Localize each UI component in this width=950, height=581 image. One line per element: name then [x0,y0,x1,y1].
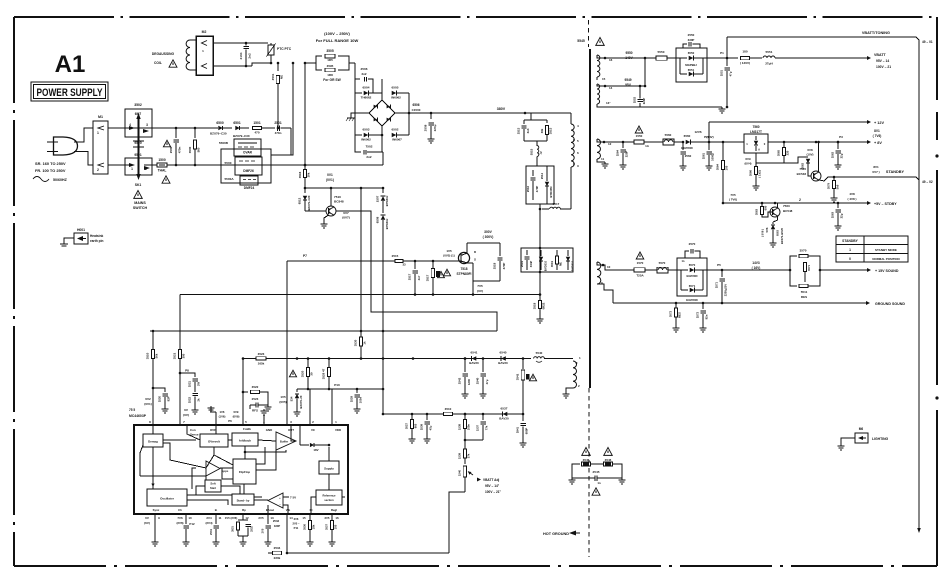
svg-text:+5V – STDBY: +5V – STDBY [874,202,897,206]
svg-text:1: 1 [131,167,133,171]
label 9550 [625,51,633,60]
svg-text:(1V6): (1V6) [219,415,226,419]
svg-text:3: 3 [146,123,148,127]
svg-text:0V: 0V [145,516,149,520]
inductor 5570 [657,261,677,273]
svg-text:BZX79–C20: BZX79–C20 [307,195,311,210]
svg-text:P8: P8 [185,369,189,373]
svg-text:3519: 3519 [550,260,554,267]
svg-text:9501: 9501 [134,153,142,157]
svg-text:1550: 1550 [636,134,643,138]
svg-text:For GR SW: For GR SW [323,78,341,82]
diode 6502 [392,128,409,142]
svg-text:S: S [474,258,476,262]
svg-text:3537: 3537 [325,524,329,530]
svg-text:2518: 2518 [493,262,497,269]
svg-text:foldback: foldback [239,439,251,443]
svg-text:13°: 13° [606,101,611,105]
svg-text:3513: 3513 [549,127,553,134]
capacitor 2562 P3 [831,135,844,169]
svg-text:2513: 2513 [517,127,521,134]
svg-text:18V: 18V [313,448,318,452]
svg-text:2V5: 2V5 [325,516,330,520]
svg-text:330P: 330P [688,38,695,42]
svg-text:IN6062: IN6062 [391,96,401,100]
svg-text:7565: 7565 [799,167,806,171]
svg-text:C1500: C1500 [412,108,421,112]
diode 6505 [391,86,409,100]
svg-text:Regl: Regl [331,508,337,512]
svg-text:33nP: 33nP [529,261,533,268]
inductor 5540 [523,351,573,362]
svg-text:POWER SUPPLY: POWER SUPPLY [37,87,103,99]
svg-text:( 1k2): ( 1k2) [758,170,762,177]
svg-text:RES: RES [801,295,807,299]
svg-text:49 – 02: 49 – 02 [922,180,933,184]
svg-text:SK1: SK1 [135,183,142,187]
svg-text:39: 39 [310,372,314,376]
capacitor 2541 [516,414,529,447]
svg-text:7510: 7510 [334,195,341,199]
mains plug [47,128,93,165]
label 7V5 0V [477,284,483,293]
diode 1507 [376,188,390,213]
svg-text:1200: 1200 [467,378,471,385]
wire +8V [768,129,882,145]
svg-text:opps: opps [222,469,229,473]
svg-text:P5: P5 [717,263,721,267]
svg-text:2508: 2508 [424,124,428,131]
wire drain rail [539,209,542,295]
svg-text:2104: 2104 [239,52,243,59]
capacitor 2550 [683,33,700,48]
svg-text:P11: P11 [294,526,299,530]
svg-text:12: 12 [245,516,249,520]
svg-text:( 7V6): ( 7V6) [729,198,737,202]
svg-text:100n: 100n [359,397,363,404]
svg-text:STPN80FI: STPN80FI [457,272,472,276]
svg-text:1V6: 1V6 [220,410,225,414]
svg-text:5540: 5540 [536,351,543,355]
svg-text:(6V): (6V) [144,521,150,525]
svg-text:39k: 39k [307,172,311,177]
svg-text:82P: 82P [167,396,171,401]
svg-text:2531: 2531 [209,529,213,535]
svg-text:Oscillator: Oscillator [160,497,175,501]
svg-text:18k: 18k [312,524,316,529]
svg-text:39k: 39k [540,128,544,133]
svg-text:2n2: 2n2 [362,72,367,76]
svg-text:47μ: 47μ [485,379,489,384]
capacitor 2542 [458,357,485,398]
svg-text:2V6: 2V6 [294,517,299,521]
IC block Supply [319,461,339,474]
svg-text:6560: 6560 [684,134,691,138]
svg-text:2519: 2519 [520,260,524,267]
svg-text:3541: 3541 [516,373,520,380]
wire rail y414 [383,413,524,416]
svg-text:(0V1): (0V1) [144,402,152,406]
resistor 180 [740,50,762,66]
svg-text:1537: 1537 [476,424,480,431]
svg-text:6501: 6501 [233,121,241,125]
potentiometer 1540 [458,466,474,492]
resistor 3517 [426,261,445,295]
svg-text:2562: 2562 [831,151,835,158]
wire PTC to bridge [354,63,356,93]
label 0V pin7 [183,408,189,417]
svg-text:A1: A1 [55,51,86,78]
capacitor 2545 [568,470,625,495]
svg-text:3529 47: 3529 47 [322,368,326,379]
label 0V1 [326,173,334,182]
varistor block 5500 [221,149,271,183]
svg-text:6563: 6563 [776,230,780,236]
svg-text:GND: GND [266,428,272,432]
svg-text:NORMAL POSITION: NORMAL POSITION [872,257,899,261]
svg-text:(0V9): (0V9) [233,415,240,419]
svg-text:P6: P6 [228,419,232,423]
diode 6537 [497,407,523,421]
wire standby drop [917,62,921,533]
wire rail drop x153 [152,331,154,349]
label P8 [185,369,189,373]
svg-text:SWITCH: SWITCH [133,206,148,210]
capacitor 2521 [180,373,201,392]
resistor 1501 [253,121,276,135]
capacitor 2500 [163,128,181,165]
svg-text:1V5: 1V5 [446,249,452,253]
svg-text:9500: 9500 [134,141,142,145]
label 14V3 [752,261,761,270]
svg-text:16: 16 [609,58,613,62]
svg-text:EAout: EAout [266,508,274,512]
wire P1 node [707,51,738,59]
svg-text:MGP9BJ: MGP9BJ [685,63,697,67]
svg-text:M1: M1 [98,115,103,119]
wire STANDBY [828,165,933,184]
svg-text:OVAR: OVAR [243,151,253,155]
svg-text:STANDBY: STANDBY [842,239,858,243]
resistor 3536 pin15 [302,514,315,546]
svg-text:COIL: COIL [154,61,162,65]
capacitor 2531 pin11 [205,514,221,546]
svg-text:OVervolt: OVervolt [208,440,220,444]
svg-text:(0V1): (0V1) [326,178,334,182]
svg-text:47μ: 47μ [429,425,433,430]
diode 6503 [355,128,382,142]
svg-text:2515: 2515 [392,254,399,258]
svg-text:earth pin: earth pin [90,239,104,243]
svg-text:NE: NE [280,75,284,79]
svg-text:6508: 6508 [376,216,380,223]
svg-text:STANDBY: STANDBY [886,170,905,174]
IC block FlipFlop [233,459,256,484]
IC block Overvolt [200,434,228,447]
svg-text:PTC PTC: PTC PTC [277,47,292,51]
wire VBATT TONING [727,31,933,62]
resistor 3566 [749,163,762,190]
fuse 1570 [613,252,657,278]
fuse 1500 [152,158,176,183]
svg-text:6551: 6551 [688,68,695,72]
svg-text:(0V5): (0V5) [279,400,286,404]
capacitor 2572 [696,303,709,332]
diode 6541 [383,351,497,366]
svg-text:(2V4): (2V4) [205,521,212,525]
label SK1 / MAINS SWITCH [133,183,148,210]
svg-text:10: 10 [188,516,192,520]
svg-text:95V – 14: 95V – 14 [876,59,889,63]
svg-text:100V – 21°: 100V – 21° [485,490,502,494]
svg-text:3527: 3527 [405,422,409,429]
diode 6508 [376,215,390,414]
svg-text:1: 1 [849,248,851,252]
svg-text:7518: 7518 [460,267,467,271]
transistor 7510 [305,188,350,228]
svg-text:3516: 3516 [298,171,302,178]
svg-text:220: 220 [786,150,790,155]
transformer secondary winding 12-11 [597,139,612,168]
svg-text:Rp: Rp [242,508,246,512]
svg-text:3531: 3531 [231,526,235,532]
IC pin numbers top [149,419,337,424]
label HOT GROUND [543,531,580,537]
hot-cold separator dashed top [588,20,590,47]
svg-text:5500B: 5500B [219,141,229,145]
svg-text:2W: 2W [197,382,201,386]
svg-text:7560: 7560 [752,125,759,129]
resistor 3516 [298,165,311,188]
transformer secondary winding 10-9 [597,262,613,303]
svg-text:P1: P1 [720,51,724,55]
capacitor 2561 P2 [702,135,715,170]
svg-text:OVP: OVP [210,428,216,432]
svg-text:7 5V: 7 5V [290,496,296,500]
svg-text:HOT GROUND: HOT GROUND [543,532,569,536]
svg-text:(2V6): (2V6) [176,521,183,525]
svg-text:5500: 5500 [225,161,232,165]
svg-text:(100V – 250V): (100V – 250V) [324,31,350,36]
svg-text:6512: 6512 [298,197,302,204]
svg-text:6500: 6500 [216,121,224,125]
svg-text:3n3: 3n3 [526,128,530,133]
svg-text:77k: 77k [485,425,489,430]
svg-text:2539: 2539 [420,423,424,430]
svg-text:220μ: 220μ [433,124,437,131]
svg-text:Reference: Reference [323,494,337,498]
svg-text:2V4: 2V4 [206,516,212,520]
svg-text:P7: P7 [303,254,307,258]
svg-text:Foldb: Foldb [243,427,251,431]
inductor 5560 [663,133,683,145]
svg-text:220P: 220P [625,151,629,158]
svg-text:MC44603P: MC44603P [129,414,147,418]
IC block Stand-by [232,494,254,505]
svg-text:2563: 2563 [831,211,835,218]
svg-text:470P: 470P [535,186,539,193]
svg-text:680: 680 [764,205,768,210]
capacitor 2540 [476,359,490,398]
svg-text:2514: 2514 [540,172,544,179]
varistor block 5500A [224,176,258,190]
label MC44603P [129,408,147,418]
svg-text:2: 2 [799,198,801,202]
svg-text:3502: 3502 [134,103,142,107]
transformer core line [589,49,591,388]
svg-text:BYD33J: BYD33J [544,260,548,271]
svg-text:SR. 160 TO 250V: SR. 160 TO 250V [35,161,66,166]
svg-text:BZX79–C30: BZX79–C30 [210,132,227,136]
inductor 5550 [656,50,676,60]
svg-text:2540: 2540 [476,377,480,384]
rectifier box 6550/6551 [676,48,707,82]
svg-text:6571: 6571 [689,284,696,288]
svg-text:IN6062: IN6062 [361,138,371,142]
svg-text:1000μ: 1000μ [711,153,715,161]
svg-text:11: 11 [601,157,605,161]
wire gate rail P7 [287,254,455,262]
svg-text:1500: 1500 [158,158,166,162]
svg-text:7502: 7502 [366,145,373,149]
svg-text:3520: 3520 [301,370,305,377]
wire bridge bottom [381,126,384,152]
wire LM317 adj [755,153,757,158]
diode 6562 [784,148,814,172]
svg-text:6540: 6540 [500,351,507,355]
svg-text:300V: 300V [484,230,493,234]
zener 6500 [210,121,227,136]
capacitor network 3545/3546 [572,458,622,478]
capacitor 2522 [188,393,201,413]
wire bridge right rail [395,93,410,135]
svg-text:P10: P10 [334,383,340,387]
svg-text:560: 560 [197,147,201,152]
svg-text:3579: 3579 [827,182,831,189]
IC block Soft Start [205,480,221,492]
resistor 3538 [444,407,453,420]
svg-text:(0V): (0V) [183,413,189,417]
svg-text:DEGAUSSING: DEGAUSSING [152,52,175,56]
wire mains top rail [108,127,279,130]
svg-text:3517: 3517 [426,274,430,281]
svg-text:section: section [324,498,334,502]
mains switch SK1 contact block upper [125,103,152,137]
svg-text:665: 665 [414,423,418,428]
capacitor 2570 [685,242,700,258]
svg-text:49 – 01: 49 – 01 [922,40,933,44]
svg-text:3565: 3565 [777,149,781,156]
capacitor 2539 [420,414,433,443]
IC block Oscillator [147,489,187,506]
capacitor 2104 [239,43,252,66]
wire x384 link [382,388,385,416]
resistor 3522 [243,385,268,400]
svg-text:2k: 2k [197,398,201,401]
svg-text:2522: 2522 [188,396,192,403]
svg-text:5545: 5545 [577,39,585,43]
svg-text:BC548: BC548 [783,209,793,213]
svg-text:6541: 6541 [471,351,478,355]
wire rail y358 [242,357,525,360]
svg-text:2550: 2550 [688,33,695,37]
wire snubber bottom [539,204,542,210]
wire pot return [449,492,465,553]
svg-text:1: 1 [97,131,99,135]
resistor 3520 [289,359,313,390]
IC top pin stubs [153,389,332,425]
svg-text:3530: 3530 [354,339,358,346]
svg-text:2571: 2571 [715,281,719,288]
svg-text:Sync: Sync [153,508,160,512]
wire adj node [744,157,784,166]
resistor 3537 pin16 [325,514,339,546]
svg-text:H001: H001 [77,228,85,232]
resistor network 3505/3595 [292,49,355,82]
svg-text:27μH: 27μH [765,62,773,66]
wire ground sound [613,301,905,306]
diode 6504 [355,86,382,100]
svg-text:3505: 3505 [326,49,334,53]
wire degauss top [213,42,268,45]
svg-text:3570: 3570 [800,249,807,253]
svg-text:380V: 380V [497,107,506,111]
svg-text:5570: 5570 [659,261,666,265]
svg-text:5500A: 5500A [224,177,234,181]
svg-text:5k6: 5k6 [836,184,840,189]
IC EAout amp [268,493,296,508]
snubber 2513/3513 [517,113,553,146]
arrow VBATT out [867,53,891,69]
svg-text:3564: 3564 [716,163,720,170]
svg-text:95V – 14°: 95V – 14° [485,484,500,488]
svg-text:( 16V): ( 16V) [752,266,761,270]
svg-text:3566: 3566 [749,169,753,176]
capacitor 2523 [250,397,272,413]
svg-text:EGP20D: EGP20D [686,298,697,302]
svg-text:2523: 2523 [252,397,259,401]
capacitor 2506 [355,67,373,93]
label mains voltage [35,161,66,173]
bridge rectifier 6506 diamond [369,100,421,126]
svg-text:5550: 5550 [658,50,665,54]
svg-text:DMF24: DMF24 [244,186,255,190]
label full range [316,31,359,43]
svg-text:2545: 2545 [593,470,600,474]
svg-text:(0V5) (1): (0V5) (1) [443,254,454,258]
svg-text:180: 180 [742,50,747,54]
zener 6501 [223,121,250,138]
svg-text:11: 11 [218,516,221,520]
capacitor 2529 [350,389,363,413]
wire rail y331 [150,330,497,333]
transformer 5545 primary winding [571,113,579,209]
svg-text:DMF26: DMF26 [243,169,254,173]
svg-text:M6: M6 [859,427,864,431]
svg-text:2V5 –: 2V5 – [292,522,300,526]
transformer secondary winding 16-15 [597,55,613,81]
transistor 7563 [770,198,801,222]
svg-text:2570: 2570 [689,242,696,246]
wire bridge top [373,79,382,100]
svg-text:100: 100 [725,165,729,170]
svg-text:390: 390 [182,353,186,358]
svg-text:2520: 2520 [158,395,162,402]
svg-text:( 7V6): ( 7V6) [873,134,882,138]
wire 7V5 rail [723,193,897,206]
resistor 3541 [516,359,537,415]
svg-text:680P: 680P [525,428,529,435]
